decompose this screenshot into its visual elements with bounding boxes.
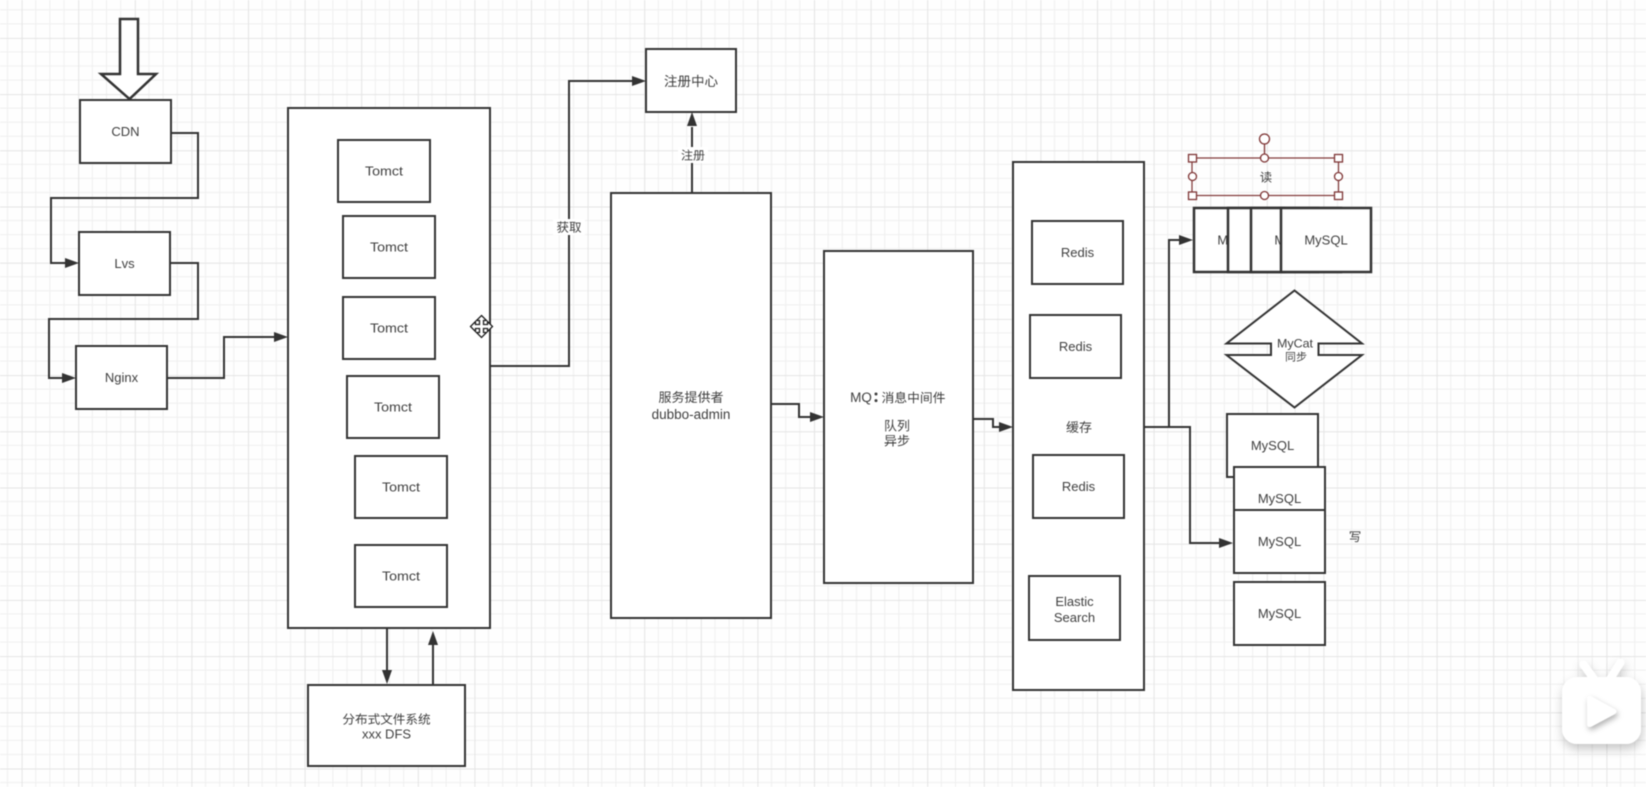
svg-text:MySQL: MySQL xyxy=(1251,438,1294,453)
svg-text:Redis: Redis xyxy=(1061,245,1095,260)
svg-text:MySQL: MySQL xyxy=(1258,534,1301,549)
svg-text:CDN: CDN xyxy=(111,124,139,139)
svg-text:xxx DFS: xxx DFS xyxy=(362,727,411,742)
svg-text:MQ: MQ xyxy=(850,390,872,405)
svg-text:MySQL: MySQL xyxy=(1258,491,1301,506)
svg-text:Tomct: Tomct xyxy=(370,321,408,336)
svg-text:Tomct: Tomct xyxy=(382,569,420,584)
svg-text:Redis: Redis xyxy=(1059,339,1093,354)
svg-text:MyCat: MyCat xyxy=(1277,336,1314,350)
svg-text:dubbo-admin: dubbo-admin xyxy=(652,407,731,422)
svg-text:Elastic: Elastic xyxy=(1055,594,1094,609)
svg-text:Lvs: Lvs xyxy=(114,256,135,271)
svg-text:Tomct: Tomct xyxy=(370,240,408,255)
svg-text:MySQL: MySQL xyxy=(1304,233,1347,248)
svg-text:Redis: Redis xyxy=(1062,479,1096,494)
svg-text:Tomct: Tomct xyxy=(382,480,420,495)
svg-text:Nginx: Nginx xyxy=(105,370,139,385)
svg-text:Tomct: Tomct xyxy=(365,164,403,179)
svg-text:MySQL: MySQL xyxy=(1258,606,1301,621)
svg-text:Tomct: Tomct xyxy=(374,400,412,415)
svg-text:Search: Search xyxy=(1054,610,1095,625)
